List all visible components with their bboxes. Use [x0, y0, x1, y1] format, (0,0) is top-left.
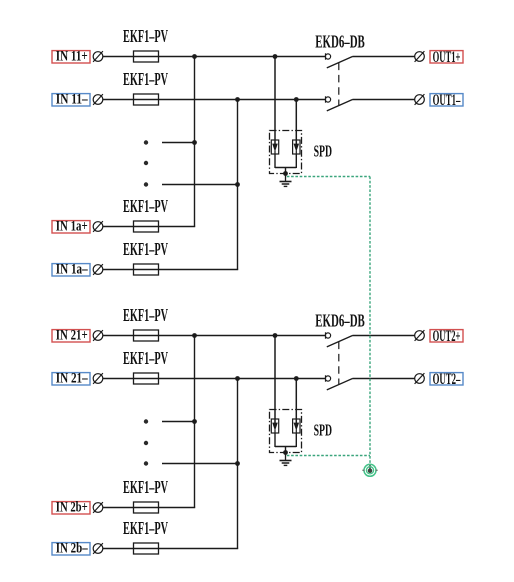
svg-text:EKF1–PV: EKF1–PV [123, 348, 168, 368]
terminal input IN 11&#8211; [93, 94, 103, 105]
terminal input IN 21+ [93, 330, 103, 341]
svg-text:IN 21+: IN 21+ [56, 328, 88, 344]
SPD U1 left arrow [272, 144, 278, 152]
junction - bus at stub [235, 182, 240, 187]
SPD U1 left bottom wire [274, 154, 276, 168]
switch blade Q1 pole 2 [327, 100, 353, 111]
junction + bus at IN 11+ [192, 54, 197, 59]
wire IN 2b+ row [103, 507, 195, 509]
label IN 2b&#8211; [52, 541, 90, 557]
terminal output OUT2&#8211; [415, 373, 425, 384]
terminal output OUT1&#8211; [415, 94, 425, 105]
wire positive bus (IN 21+ to IN 2b+) [194, 336, 196, 508]
terminal input IN 11+ [93, 51, 103, 62]
switch contact Q2 pole 1 [325, 332, 330, 338]
label OUT1&#8211; [430, 92, 463, 109]
wire IN 21&#8211; row [103, 378, 326, 380]
svg-text:OUT1+: OUT1+ [433, 49, 461, 66]
svg-text:EKD6–DB: EKD6–DB [315, 311, 365, 331]
switch blade Q2 pole 1 [327, 336, 353, 347]
switch blade Q1 pole 1 [327, 57, 353, 68]
svg-text:EKF1–PV: EKF1–PV [123, 69, 168, 89]
SPD U2 right bottom wire [295, 433, 297, 447]
SPD U1 bottom connecting wire [275, 167, 296, 169]
terminal input IN 2b&#8211; [93, 543, 103, 554]
ellipsis dots (more inputs) [144, 140, 148, 186]
svg-text:IN 21–: IN 21– [56, 371, 88, 387]
SPD U1 right varistor element [293, 140, 300, 154]
SPD U2 bottom connecting wire [275, 446, 296, 448]
wire stub (additional - input) [162, 463, 238, 465]
junction SPD left tap [273, 333, 278, 338]
label IN 2b+ [52, 500, 90, 516]
terminal output OUT2+ [415, 330, 425, 341]
svg-text:EKF1–PV: EKF1–PV [123, 305, 168, 325]
junction - bus at IN 21&#8211; [235, 376, 240, 381]
switch contact Q1 pole 2 [325, 96, 330, 102]
SPD U2 left varistor element [271, 419, 278, 433]
svg-text:OUT2–: OUT2– [433, 371, 461, 388]
switch contact Q1 pole 1 [325, 53, 330, 59]
svg-text:SPD: SPD [314, 420, 332, 439]
SPD U2 right lead wire [295, 379, 297, 424]
junction - bus at IN 11&#8211; [235, 97, 240, 102]
SPD U1 left lead wire [274, 57, 276, 145]
terminal input IN 2b+ [93, 502, 103, 513]
switch Q1 mechanical linkage (dashed) [338, 63, 340, 106]
junction SPD right tap [294, 376, 299, 381]
wire negative bus (IN 11&#8211; to IN 1a&#8211;) [237, 100, 239, 270]
SPD U2 right arrow [294, 423, 300, 431]
svg-text:EKF1–PV: EKF1–PV [123, 26, 168, 46]
fuse F5 EKF1-PV [134, 330, 159, 341]
SPD U2 left lead wire [274, 336, 276, 424]
svg-text:OUT2+: OUT2+ [433, 328, 461, 345]
wire positive bus (IN 11+ to IN 1a+) [194, 57, 196, 227]
wire stub (additional - input) [162, 184, 238, 186]
label IN 11&#8211; [52, 92, 90, 108]
SPD U1 right arrow [294, 144, 300, 152]
junction - bus at stub [235, 461, 240, 466]
wire OUT1&#8211; row [353, 99, 415, 101]
wire OUT2+ row [353, 335, 415, 337]
terminal input IN 1a+ [93, 221, 103, 232]
earth connection point (PE node) [362, 464, 377, 476]
junction at SPD U1 ground node [283, 171, 288, 176]
svg-text:IN 11+: IN 11+ [56, 49, 88, 65]
wire earth net from SPD U1 ground (green dashed) [287, 176, 370, 178]
SPD U2 left bottom wire [274, 433, 276, 447]
label IN 21+ [52, 328, 90, 344]
svg-text:EKF1–PV: EKF1–PV [123, 477, 168, 497]
switch blade Q2 pole 2 [327, 379, 353, 390]
terminal input IN 1a&#8211; [93, 264, 103, 275]
junction SPD left tap [273, 54, 278, 59]
wire OUT1+ row [353, 56, 415, 58]
junction SPD right tap [294, 97, 299, 102]
SPD U1 left varistor element [271, 140, 278, 154]
svg-text:EKD6–DB: EKD6–DB [315, 32, 365, 52]
label OUT2+ [430, 328, 463, 345]
terminal output OUT1+ [415, 51, 425, 62]
junction + bus at stub [192, 419, 197, 424]
terminal input IN 21&#8211; [93, 373, 103, 384]
wire IN 11+ row [103, 56, 326, 58]
fuse F3 EKF1-PV [134, 221, 159, 232]
fuse F8 EKF1-PV [134, 543, 159, 554]
wire IN 1a+ row [103, 226, 195, 228]
SPD U2 right varistor element [293, 419, 300, 433]
label OUT1+ [430, 49, 463, 66]
svg-text:IN 11–: IN 11– [56, 92, 88, 108]
wire stub (additional + input) [162, 142, 195, 144]
junction + bus at stub [192, 140, 197, 145]
fuse F6 EKF1-PV [134, 373, 159, 384]
SPD U1 right lead wire [295, 100, 297, 145]
svg-text:OUT1–: OUT1– [433, 92, 461, 109]
SPD U2 enclosure (dash-dot box) [270, 410, 302, 453]
wire negative bus (IN 21&#8211; to IN 2b&#8211;) [237, 379, 239, 549]
svg-text:IN 2b–: IN 2b– [56, 541, 88, 557]
fuse F7 EKF1-PV [134, 502, 159, 513]
wire OUT2&#8211; row [353, 378, 415, 380]
junction + bus at IN 21+ [192, 333, 197, 338]
wire IN 21+ row [103, 335, 326, 337]
fuse F2 EKF1-PV [134, 94, 159, 105]
SPD U1 right bottom wire [295, 154, 297, 168]
ground symbol (U1) [280, 174, 292, 187]
fuse F4 EKF1-PV [134, 264, 159, 275]
label IN 11+ [52, 49, 90, 65]
label IN 1a+ [52, 219, 90, 235]
fuse F1 EKF1-PV [134, 51, 159, 62]
ellipsis dots (more inputs) [144, 419, 148, 465]
wire IN 11&#8211; row [103, 99, 326, 101]
svg-text:SPD: SPD [314, 141, 332, 160]
SPD U1 enclosure (dash-dot box) [270, 131, 302, 174]
wire IN 2b&#8211; row [103, 548, 238, 550]
junction at SPD U2 ground node [283, 450, 288, 455]
SPD U1 centre drop wire [285, 168, 287, 174]
SPD U2 left arrow [272, 423, 278, 431]
switch contact Q2 pole 2 [325, 375, 330, 381]
label OUT2&#8211; [430, 371, 463, 388]
svg-text:IN 2b+: IN 2b+ [56, 500, 88, 516]
label IN 21&#8211; [52, 371, 90, 387]
svg-text:EKF1–PV: EKF1–PV [123, 196, 168, 216]
SPD U2 centre drop wire [285, 447, 287, 453]
svg-text:IN 1a–: IN 1a– [56, 262, 88, 278]
label IN 1a&#8211; [52, 262, 90, 278]
svg-text:EKF1–PV: EKF1–PV [123, 239, 168, 259]
svg-text:IN 1a+: IN 1a+ [56, 219, 88, 235]
wire earth net vertical run (green dashed) [369, 177, 371, 465]
wire stub (additional + input) [162, 421, 195, 423]
wire earth net from SPD U2 ground (green dashed) [287, 455, 370, 457]
switch Q2 mechanical linkage (dashed) [338, 342, 340, 385]
ground symbol (U2) [280, 453, 292, 466]
svg-text:EKF1–PV: EKF1–PV [123, 518, 168, 538]
wire IN 1a&#8211; row [103, 269, 238, 271]
